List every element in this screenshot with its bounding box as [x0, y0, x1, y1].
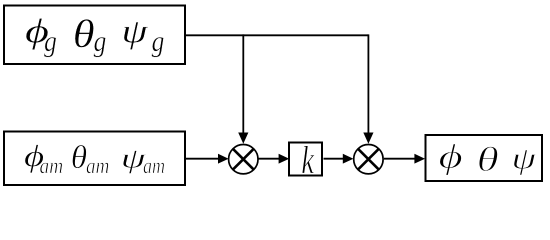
wire: M2 to output box — [384, 158, 416, 160]
label phi out — [440, 144, 462, 176]
box: gyro inputs (top-left) — [4, 6, 185, 65]
label psi out — [514, 150, 537, 175]
arrowhead into M1 (rightward) — [218, 154, 229, 164]
label phi_am sub — [40, 163, 48, 174]
multiplier M1 (circle with X) — [229, 145, 258, 174]
wire: M1 to gain k — [258, 158, 281, 160]
box: gain k — [289, 143, 322, 176]
label theta_g main — [75, 19, 94, 47]
arrowhead into M1 (downward) — [238, 133, 248, 144]
label theta_am main — [72, 145, 86, 168]
arrowhead into output box — [414, 154, 425, 164]
label theta out — [479, 146, 498, 171]
arrowhead into M2 (downward) — [363, 133, 373, 144]
wire: accelerometer box to M1 — [186, 158, 220, 160]
label psi_g sub — [152, 37, 164, 57]
label theta_g sub — [94, 37, 106, 57]
label psi_g main — [124, 22, 148, 50]
label gain k label — [302, 146, 314, 173]
wire: top bus from gyro box toward M2 — [186, 34, 369, 36]
wire: vertical drop into multiplier M2 — [367, 34, 369, 134]
label phi_am main — [25, 145, 43, 173]
arrowhead into M2 (rightward) — [343, 154, 354, 164]
arrowhead into k box — [279, 154, 290, 164]
box: accelerometer inputs (bottom-left) — [4, 132, 185, 186]
wire: vertical drop into multiplier M1 — [242, 34, 244, 134]
label theta_am sub — [87, 163, 95, 174]
box: fused output (right) — [426, 135, 543, 181]
label psi_am sub — [144, 163, 152, 174]
multiplier M2 (circle with X) — [354, 145, 383, 174]
label phi_g sub — [44, 37, 56, 57]
label phi_g main — [26, 18, 48, 49]
wire: gain k to M2 — [324, 158, 345, 160]
label psi_am main — [123, 151, 146, 174]
